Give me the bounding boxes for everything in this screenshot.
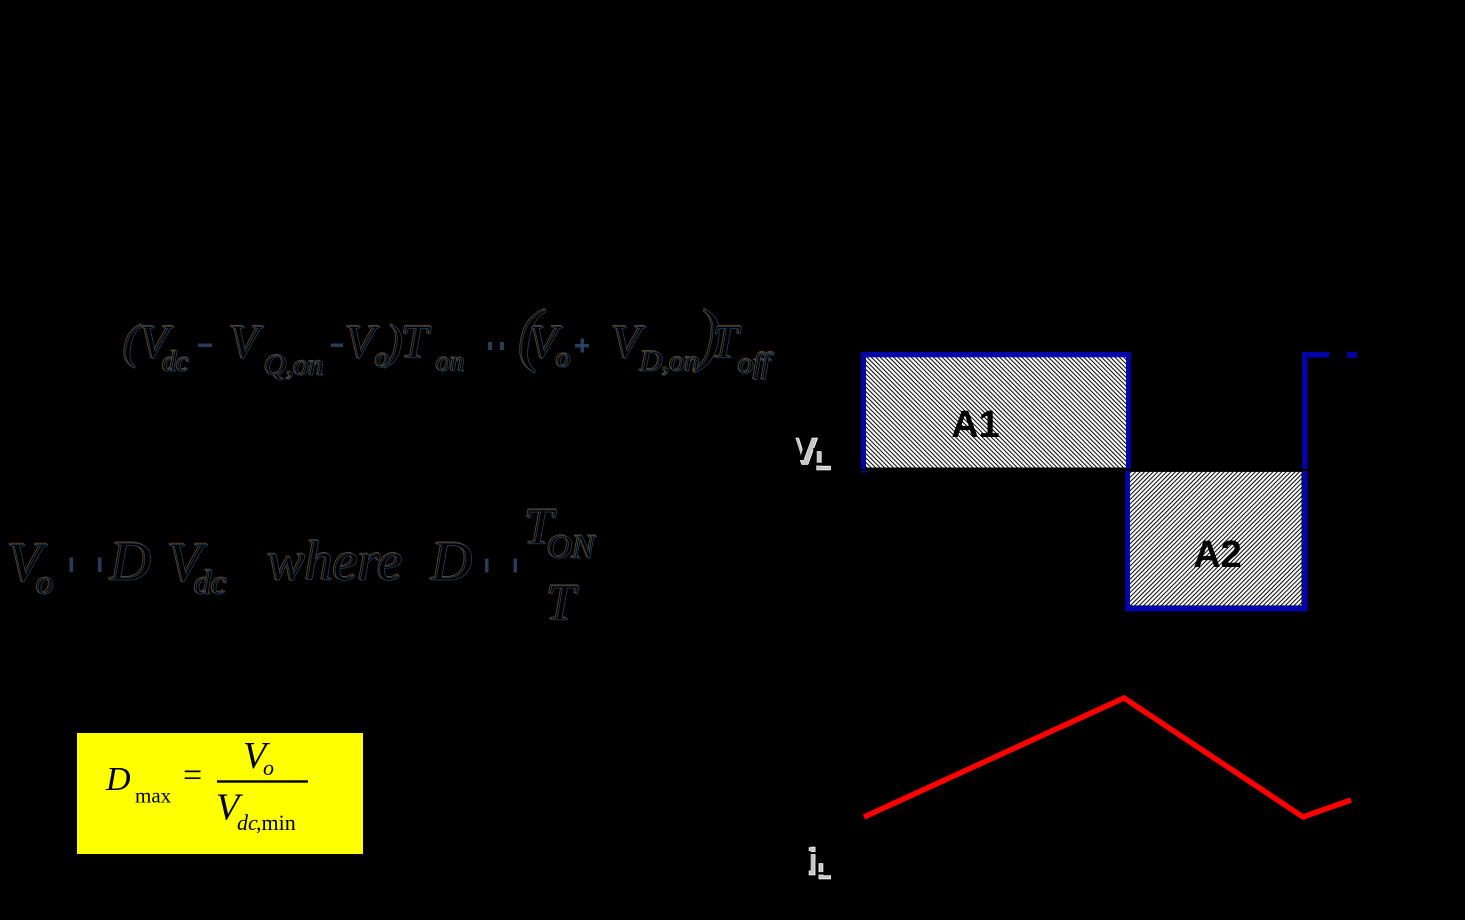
svg-text:D,on: D,on: [640, 345, 700, 378]
A2 hatched area: [1130, 472, 1302, 606]
A1 top border (wire, high level): [861, 352, 1131, 357]
svg-text:V: V: [789, 427, 814, 468]
svg-text:V: V: [346, 316, 380, 369]
svg-text:=: =: [183, 757, 202, 794]
A2 right border (rising edge lower): [1302, 471, 1307, 609]
VL label (black with silver shadow): [789, 427, 831, 476]
svg-text:D: D: [105, 761, 131, 798]
equation 1: (Vdc - VQ,on - Vo)Ton = (Vo + VD,on)Toff (faint outline): [122, 296, 772, 381]
falling edge upper segment (A1 right border): [1126, 352, 1131, 469]
falling edge lower segment (A2 left border): [1125, 471, 1130, 609]
svg-text:T: T: [712, 316, 742, 369]
small blue tick at axis below left edge: [861, 471, 867, 473]
dashed continuation segment 2: [1347, 352, 1357, 358]
svg-text:dc: dc: [163, 347, 190, 378]
svg-text:o: o: [557, 343, 571, 374]
svg-text:o: o: [37, 565, 54, 602]
svg-text:ON: ON: [548, 529, 598, 566]
rising edge upper segment (next period): [1302, 352, 1307, 469]
svg-text:L: L: [814, 857, 827, 880]
svg-text:dc: dc: [195, 565, 227, 602]
svg-text:A2: A2: [1193, 534, 1242, 576]
equation 2: Vo = D Vdc where D = TON/T (faint outline): [6, 498, 596, 631]
A1 left border (rising edge wire): [861, 352, 866, 469]
svg-text:T: T: [402, 316, 432, 369]
svg-text:,min: ,min: [256, 810, 296, 835]
svg-text:o: o: [263, 755, 274, 780]
yellow highlight box: [77, 733, 363, 854]
svg-text:on: on: [437, 347, 465, 378]
svg-text:where: where: [268, 531, 403, 593]
Dmax equation in yellow box: [105, 735, 308, 835]
A2 bottom border (wire, low level): [1125, 606, 1307, 612]
svg-text:i: i: [803, 838, 813, 879]
svg-text:A1: A1: [951, 404, 1000, 446]
svg-text:D: D: [110, 531, 151, 593]
svg-text:Q,on: Q,on: [265, 349, 324, 382]
svg-text:D: D: [431, 531, 472, 593]
svg-text:T: T: [547, 575, 579, 632]
svg-text:off: off: [739, 347, 774, 380]
svg-text:V: V: [230, 316, 264, 369]
svg-text:L: L: [812, 444, 827, 472]
svg-text:): ): [384, 316, 403, 369]
svg-text:dc: dc: [237, 810, 258, 835]
dashed continuation segment 1: [1308, 352, 1329, 358]
svg-text:max: max: [135, 784, 172, 808]
iL label (black with silver shadow): [803, 838, 831, 884]
red inductor current triangle waveform: [864, 698, 1351, 817]
A1 hatched area: [866, 357, 1126, 468]
